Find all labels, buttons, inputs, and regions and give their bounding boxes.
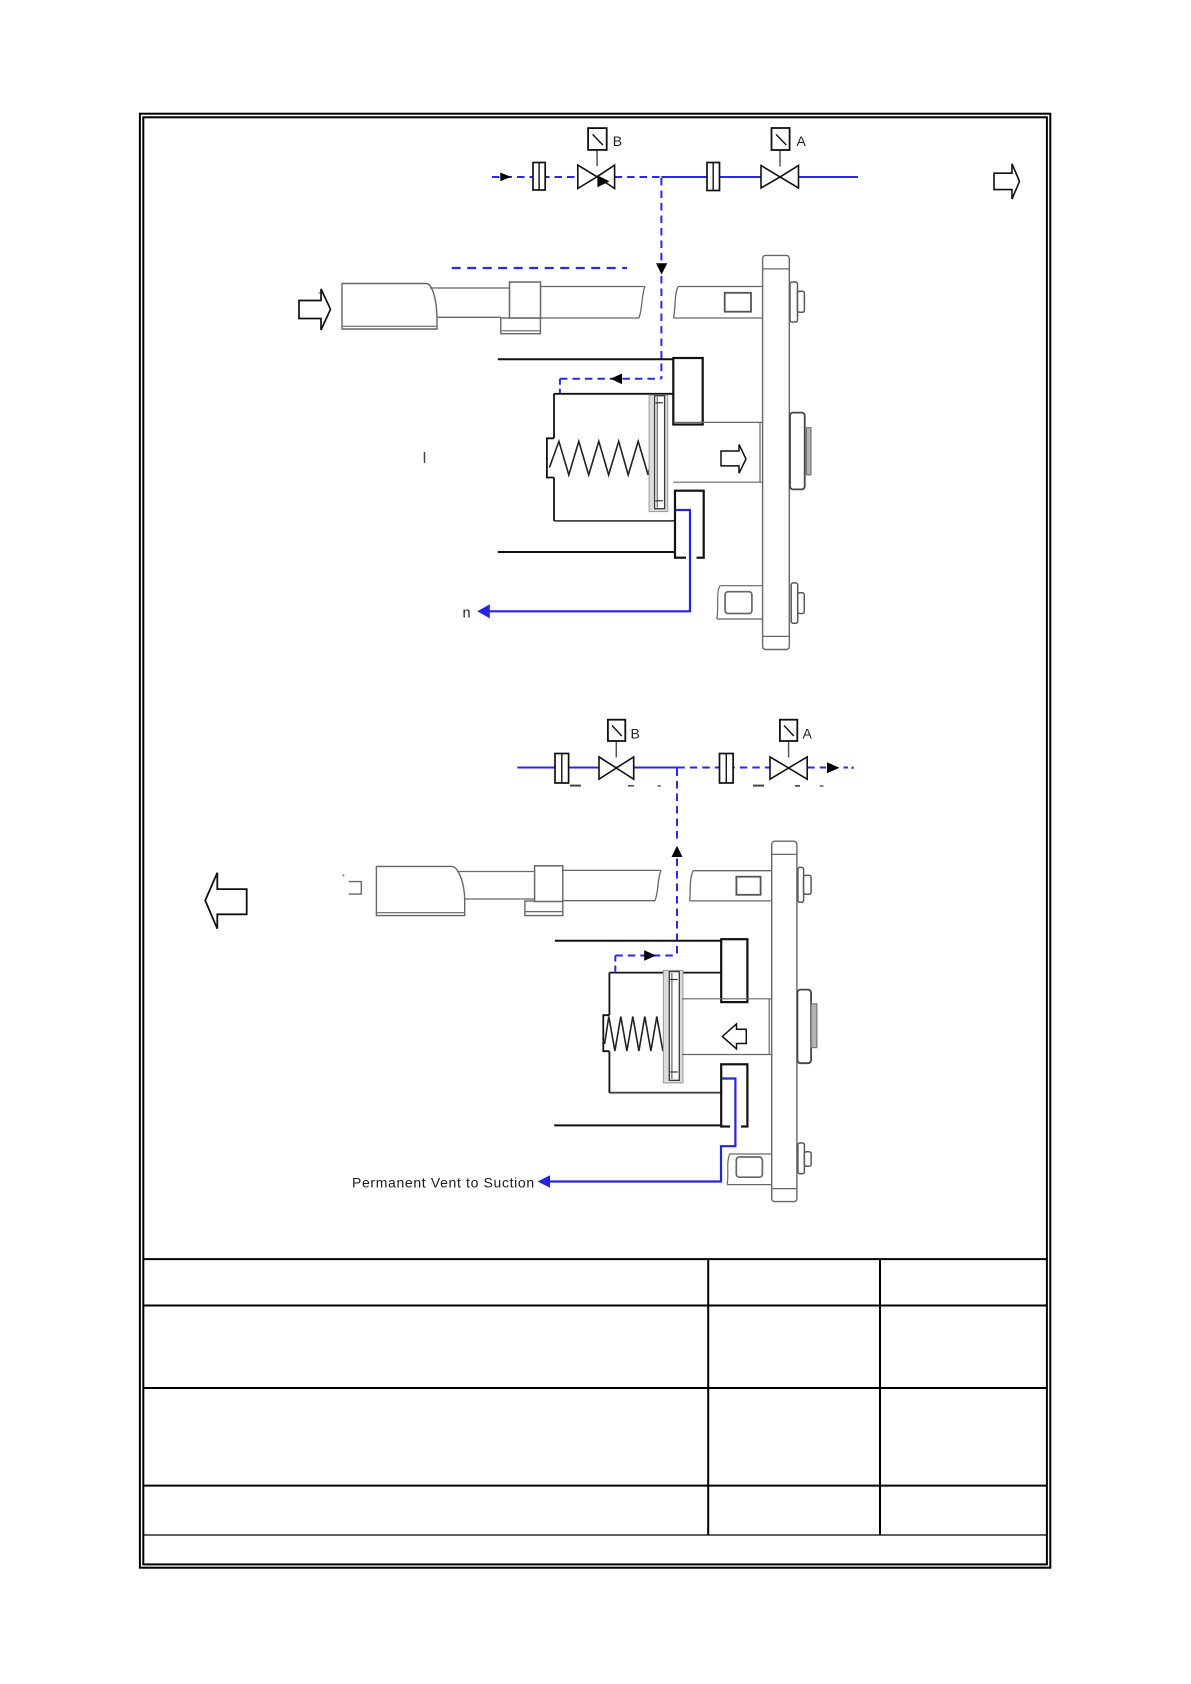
manifold plate (D2) <box>772 841 797 1201</box>
cylinder top wall (D1) <box>498 358 674 360</box>
node: D1 inlet flow arrowhead <box>500 173 511 182</box>
wire: D1 short dashed drop to spring box <box>559 379 561 394</box>
table row line 4 <box>143 1485 1047 1487</box>
node: stray dot (D1) <box>318 292 320 294</box>
bottom duct with union (D1) <box>717 586 763 619</box>
table row line 2 <box>143 1305 1047 1307</box>
rod collar (D2) <box>525 866 563 916</box>
valve A (D2) <box>770 757 807 779</box>
node: D2 outlet flow arrowhead <box>827 762 839 773</box>
center nozzle (D1) <box>790 413 811 490</box>
keeper plate on rod (D1) <box>725 293 751 312</box>
node: stray tick mark (D1) <box>424 452 426 463</box>
keeper plate on rod (D2) <box>736 877 760 895</box>
wire: D1 dashed overline above plunger <box>452 267 627 269</box>
plunger rod 3 with break (D2) <box>690 871 772 901</box>
bottom duct with union (D2) <box>727 1154 772 1185</box>
orifice D2-O1 <box>555 754 569 784</box>
page border outer <box>140 114 1050 1568</box>
plunger rod 2 with break (D1) <box>541 287 646 319</box>
plunger rod 1 (D2) <box>457 872 535 900</box>
center nozzle (D2) <box>797 990 816 1064</box>
upper port block (D2) <box>721 939 747 1002</box>
node: D2 pilot right arrowhead <box>644 950 656 961</box>
wire: D2 pipeline solid segment <box>517 767 677 769</box>
solenoid actuator box A (D2) <box>780 720 797 741</box>
wire: D2 vertical dashed riser lower <box>676 859 678 956</box>
wire: D1 vertical dashed continues to pilot elbow <box>660 276 662 379</box>
wire: D2 pipeline dashed segment <box>677 767 853 769</box>
node: D1 down arrowhead <box>656 263 667 274</box>
flow block arrow in channel (D1) <box>721 445 746 474</box>
wire: D1 horizontal dashed pilot line <box>560 378 662 380</box>
svg-text:B: B <box>613 133 622 149</box>
valve B (D1) <box>578 165 615 188</box>
solenoid actuator box B (D1) <box>588 128 607 150</box>
lower port block (D2) <box>721 1064 747 1126</box>
outlet block arrow left (D2) <box>205 873 247 929</box>
node: clipped caption remnants under D2 valves <box>570 785 824 787</box>
node: flow arrowhead inside valve B (D1) <box>597 175 609 187</box>
wire: D2 short dashed drop to spring box <box>614 956 616 973</box>
valve disc stack (D2) <box>663 970 683 1083</box>
table column divider 1 <box>707 1259 709 1535</box>
flow channel walls (D2) <box>682 999 772 1055</box>
wire: valve A stem (D1) <box>779 150 781 167</box>
upper port block (D1) <box>673 358 702 425</box>
bottom nozzle (D2) <box>798 1143 811 1174</box>
outlet block arrow right (D1) <box>994 164 1020 199</box>
spring (D1) <box>549 441 650 475</box>
top nozzle (D2) <box>798 867 811 902</box>
valve B (D2) <box>599 757 634 779</box>
rod collar (D1) <box>501 282 541 334</box>
table row line 5 <box>143 1534 1047 1536</box>
plunger rod 2 with break (D2) <box>563 870 661 900</box>
wire: D2 vertical dashed riser upper <box>676 769 678 844</box>
wire: D1 vertical dashed drop from junction <box>660 178 662 262</box>
solenoid actuator box A (D1) <box>772 128 790 150</box>
spring (D2) <box>605 1017 667 1052</box>
node: D2 vent arrowhead <box>538 1175 550 1187</box>
svg-text:A: A <box>797 133 807 149</box>
plunger body (D1) <box>342 284 437 330</box>
cylinder bottom wall (D2) <box>554 1124 721 1126</box>
node: clip bracket mark (D2) <box>349 882 362 895</box>
table top line <box>143 1258 1047 1260</box>
flow channel walls (D1) <box>673 422 762 482</box>
svg-text:n: n <box>463 606 471 622</box>
wire: D2 vent line blue <box>550 1079 736 1182</box>
plunger rod 3 with break (D1) <box>674 287 763 319</box>
orifice D1-O1 <box>533 163 545 191</box>
node: D2 up arrowhead <box>672 846 683 857</box>
solenoid actuator box B (D2) <box>608 720 625 741</box>
cylinder bottom wall (D1) <box>498 551 675 553</box>
node: stray dot (D2) <box>343 875 345 877</box>
flow block arrow in channel (D2) <box>722 1024 746 1049</box>
node: gap in lower port block for vent line (D2) <box>730 1125 741 1128</box>
page border inner <box>143 117 1047 1564</box>
wire: valve A stem (D2) <box>788 741 790 758</box>
valve disc stack (D1) <box>649 395 668 512</box>
svg-text:A: A <box>803 726 813 742</box>
inlet block arrow (D1 left) <box>299 289 331 330</box>
spring box (D2) <box>603 973 721 1093</box>
cylinder top wall (D2) <box>555 940 721 942</box>
plunger body (D2) <box>376 866 464 915</box>
svg-text:Permanent Vent to Suction: Permanent Vent to Suction <box>352 1174 535 1190</box>
wire: D2 horizontal dashed pilot line <box>615 955 677 957</box>
wire: valve B stem (D2) <box>615 741 617 758</box>
wire: D1 pipeline solid segment <box>661 176 858 178</box>
node: gap in lower port block for vent line (D1) <box>686 556 697 559</box>
plunger rod 1 (D1) <box>430 288 510 317</box>
bottom nozzle (D1) <box>791 583 804 623</box>
svg-text:B: B <box>631 726 640 742</box>
manifold plate (D1) <box>763 255 790 649</box>
top nozzle (D1) <box>790 282 804 322</box>
table row line 3 <box>143 1387 1047 1389</box>
orifice D1-O2 <box>707 163 720 191</box>
wire: valve B stem (D1) <box>596 150 598 166</box>
valve A (D1) <box>761 166 799 189</box>
wire: D1 vent line blue <box>490 510 691 611</box>
spring box (D1) <box>547 394 675 521</box>
node: D1 pilot left arrowhead <box>611 374 623 385</box>
lower port block (D1) <box>675 491 704 558</box>
node: D1 vent arrowhead <box>477 604 490 618</box>
wire: D1 pipeline dashed segment left <box>492 176 661 178</box>
table column divider 2 <box>879 1259 881 1535</box>
orifice D2-O2 <box>720 754 734 784</box>
